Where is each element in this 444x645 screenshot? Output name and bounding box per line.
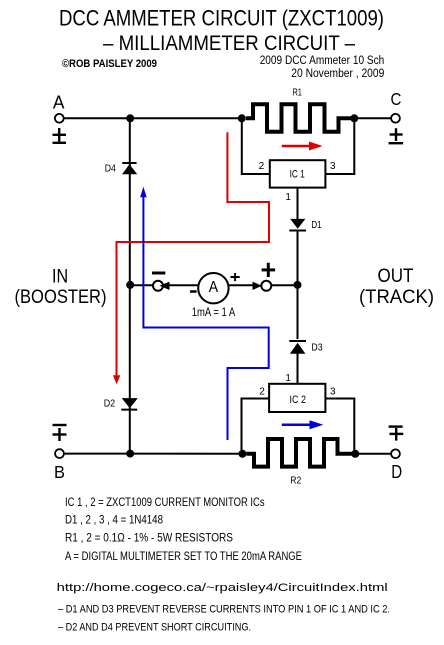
junction dot bottom-left branch — [126, 450, 134, 458]
svg-text:20 November , 2009: 20 November , 2009 — [291, 68, 384, 80]
svg-text:2009 DCC Ammeter 10 Sch: 2009 DCC Ammeter 10 Sch — [260, 55, 385, 67]
svg-text:B: B — [54, 462, 65, 482]
IC 2 label — [290, 394, 307, 406]
svg-text:IC 1 , 2 = ZXCT1009 CURRENT MO: IC 1 , 2 = ZXCT1009 CURRENT MONITOR ICs — [65, 497, 265, 509]
junction dot R2 right — [351, 450, 359, 458]
small plus sign — [231, 273, 240, 281]
wire A to top rail — [64, 117, 242, 119]
wire IC1 pin2 — [242, 118, 270, 174]
svg-text:DCC AMMETER CIRCUIT (ZXCT1009): DCC AMMETER CIRCUIT (ZXCT1009) — [59, 5, 384, 30]
svg-text:R1: R1 — [292, 88, 302, 99]
IC 1 label — [290, 169, 305, 181]
diode D4 — [122, 163, 137, 174]
op-amp/monitor IC U2 box — [269, 384, 325, 412]
polarity mark at C (plus/minus) — [389, 128, 404, 143]
svg-text:– D1 AND D3 PREVENT REVERSE CU: – D1 AND D3 PREVENT REVERSE CURRENTS INT… — [58, 604, 390, 616]
note D2 D4 — [58, 621, 251, 633]
big plus sign — [262, 263, 276, 277]
svg-text:R1 , 2 = 0.1Ω - 1% - 5W RESIS: R1 , 2 = 0.1Ω - 1% - 5W RESISTORS — [65, 533, 233, 545]
wire left branch vertical — [129, 118, 131, 453]
node C label — [390, 89, 401, 109]
ammeter scale label — [192, 307, 236, 319]
svg-text:D1: D1 — [311, 220, 322, 231]
terminal D — [391, 449, 400, 458]
big minus sign — [152, 272, 165, 275]
svg-text:A: A — [209, 279, 219, 296]
polarity mark at B (minus/plus) — [53, 425, 67, 441]
ammeter plus terminal — [261, 281, 271, 291]
svg-text:1: 1 — [285, 192, 291, 203]
polarity mark at D (minus/plus) — [389, 427, 404, 441]
IC1 pin 1 number — [285, 192, 291, 203]
svg-text:http://home.cogeco.ca/~rpaisle: http://home.cogeco.ca/~rpaisley4/Circuit… — [57, 582, 388, 594]
op-amp/monitor IC U1 box — [270, 160, 326, 187]
terminal B — [55, 449, 64, 458]
svg-text:(BOOSTER): (BOOSTER) — [15, 286, 107, 308]
note D1 D3 — [58, 604, 390, 616]
OUT label — [378, 265, 414, 287]
wire IC1 pin1 down — [297, 188, 299, 220]
wire ammeter row left — [130, 284, 153, 286]
D3 label — [311, 342, 323, 353]
svg-text:– MILLIAMMETER CIRCUIT –: – MILLIAMMETER CIRCUIT – — [103, 32, 355, 55]
svg-text:2: 2 — [259, 161, 265, 172]
D4 label — [105, 164, 116, 175]
diode D3 — [289, 341, 306, 354]
polarity mark at A (plus/minus) — [53, 128, 67, 143]
date note — [291, 68, 384, 80]
junction dot R2 left — [239, 450, 247, 458]
IC2 pin 2 number — [259, 386, 265, 397]
current direction arrow (blue, right) — [282, 420, 324, 429]
schematic name note — [260, 55, 385, 67]
svg-text:1mA = 1 A: 1mA = 1 A — [192, 307, 236, 319]
svg-text:(TRACK): (TRACK) — [359, 286, 434, 308]
svg-text:A: A — [53, 93, 65, 113]
IN label — [52, 265, 68, 287]
diode D1 — [289, 219, 306, 231]
terminal A — [55, 114, 64, 123]
BOOSTER label — [15, 286, 107, 308]
svg-text:C: C — [390, 89, 401, 109]
junction dot left branch / ammeter — [126, 281, 134, 289]
arrowhead into minus terminal — [160, 282, 170, 290]
svg-text:D2: D2 — [104, 399, 116, 410]
blue track current path wire — [143, 194, 268, 440]
wire R1 right to C — [354, 117, 391, 119]
svg-text:OUT: OUT — [378, 265, 414, 287]
wire IC2 pin2 — [242, 399, 270, 454]
svg-text:– D2 AND D4 PREVENT SHORT CIRC: – D2 AND D4 PREVENT SHORT CIRCUITING. — [58, 621, 251, 633]
svg-text:IC 2: IC 2 — [290, 394, 307, 406]
node A label — [53, 93, 65, 113]
R1 value label — [292, 88, 302, 99]
IC1 pin 3 number — [330, 161, 336, 172]
TRACK label — [359, 286, 434, 308]
D2 label — [104, 399, 116, 410]
svg-text:D1 , 2 , 3 , 4 = 1N4148: D1 , 2 , 3 , 4 = 1N4148 — [65, 515, 163, 527]
junction dot right branch / ammeter — [294, 281, 302, 289]
wire IC2 pin3 — [325, 399, 354, 454]
wire B to bottom rail — [64, 453, 246, 455]
svg-text:3: 3 — [330, 161, 336, 172]
note IC list — [65, 497, 265, 509]
IC1 pin 2 number — [259, 161, 265, 172]
note ammeter — [65, 551, 302, 563]
ammeter minus terminal — [153, 281, 163, 291]
IC2 pin 1 number — [285, 373, 291, 384]
svg-text:©ROB PAISLEY 2009: ©ROB PAISLEY 2009 — [62, 58, 157, 70]
copyright — [62, 58, 157, 70]
wire IC1 pin3 — [325, 118, 354, 174]
blue path arrowhead up — [140, 187, 147, 197]
svg-text:IN: IN — [52, 265, 68, 287]
R2 value label — [290, 476, 301, 487]
wire R2 right to D — [352, 453, 391, 455]
red path arrowhead down — [113, 375, 120, 384]
title line 2 — [103, 32, 355, 55]
svg-text:R2: R2 — [290, 476, 301, 487]
resistor R2 — [247, 439, 353, 467]
junction dot R1 right — [350, 114, 358, 122]
svg-text:IC 1: IC 1 — [290, 169, 305, 181]
resistor R1 — [246, 104, 352, 131]
node D label — [391, 462, 402, 482]
wire minus terminal to meter — [167, 284, 199, 286]
svg-text:3: 3 — [330, 386, 336, 397]
diode D2 — [121, 398, 138, 410]
wire plus terminal to right branch — [271, 284, 297, 286]
small minus sign — [190, 290, 197, 293]
svg-text:D3: D3 — [311, 342, 323, 353]
title line 1 — [59, 5, 384, 30]
terminal C — [391, 114, 400, 123]
arrowhead into plus terminal — [253, 282, 262, 290]
red booster current path wire — [117, 132, 270, 377]
svg-text:D: D — [391, 462, 402, 482]
junction dot R1 left — [238, 114, 246, 122]
wire meter to plus terminal — [229, 284, 254, 286]
current direction arrow (red, right) — [282, 142, 323, 151]
URL note — [57, 582, 388, 594]
note diode list — [65, 515, 163, 527]
svg-text:A = DIGITAL MULTIMETER SET TO: A = DIGITAL MULTIMETER SET TO THE 20mA R… — [65, 551, 302, 563]
node B label — [54, 462, 65, 482]
junction dot top-left branch — [126, 114, 134, 122]
note resistor list — [65, 533, 233, 545]
svg-text:D4: D4 — [105, 164, 116, 175]
wire D3 to IC2 pin1 — [297, 354, 299, 384]
svg-text:1: 1 — [285, 373, 291, 384]
ammeter A — [198, 273, 228, 303]
wire D1 to ammeter node — [297, 231, 299, 340]
D1 label — [311, 220, 322, 231]
svg-text:2: 2 — [259, 386, 265, 397]
IC2 pin 3 number — [330, 386, 336, 397]
